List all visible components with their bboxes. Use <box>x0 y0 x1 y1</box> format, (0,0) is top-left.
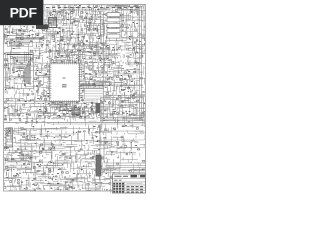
connector box 4 <box>107 29 120 33</box>
wire <box>4 103 34 105</box>
filter box <box>23 154 32 161</box>
PDF badge <box>0 0 43 25</box>
audio sub-circuit wires <box>104 141 144 154</box>
U1 pins <box>47 60 82 104</box>
title col <box>125 174 139 193</box>
CPU header <box>7 54 33 56</box>
wire <box>4 10 145 12</box>
wire <box>66 84 104 86</box>
IC U2 body <box>36 25 48 30</box>
title row2 text <box>114 179 122 181</box>
wire <box>100 119 144 121</box>
wire <box>105 84 143 86</box>
wire <box>14 133 76 135</box>
tuner box <box>122 7 145 38</box>
notes table box <box>8 41 33 47</box>
wire <box>99 124 101 188</box>
IC U6 body <box>72 108 80 115</box>
connector box 3 <box>107 23 120 27</box>
title checkerboard <box>113 183 124 193</box>
T1 hatch <box>101 22 104 35</box>
IC U3 <box>60 106 66 111</box>
transformer T1 <box>101 20 105 36</box>
title row3 right <box>127 183 143 185</box>
title rev dashes <box>127 187 144 192</box>
schematic filler text specks dark <box>4 4 148 190</box>
schematic filler components mid <box>3 4 147 193</box>
notes table text <box>9 43 30 46</box>
schematic filler wires light <box>0 1 160 196</box>
connector box 1 <box>107 13 120 17</box>
title header cell <box>140 175 145 178</box>
wire <box>100 130 144 132</box>
U6 pin rows <box>73 110 80 115</box>
title rows <box>113 178 146 190</box>
title header text <box>115 175 129 177</box>
voltage table rows <box>85 91 103 96</box>
Y1 leads <box>59 13 69 18</box>
IC U4 body <box>49 18 57 28</box>
vertical-output sub-circuit box <box>101 98 144 118</box>
wire <box>44 51 100 53</box>
wire <box>18 140 94 142</box>
border frame <box>4 5 146 192</box>
IC U5 box <box>8 106 15 114</box>
wire <box>66 87 104 88</box>
top label row <box>46 7 139 9</box>
crystal Y1 <box>60 10 66 16</box>
wire <box>10 145 62 147</box>
wire <box>50 123 144 125</box>
wire <box>8 177 94 179</box>
wire <box>4 167 64 169</box>
wire <box>106 166 146 173</box>
wire <box>4 38 44 40</box>
CPU pins <box>8 58 13 74</box>
wire <box>50 184 96 186</box>
main IC U1 body <box>50 63 80 102</box>
U1 label <box>62 78 67 87</box>
CN2 pins <box>97 156 101 174</box>
bus fanout stairs <box>12 57 30 85</box>
U4 pin rows <box>49 19 56 25</box>
bus <box>140 6 142 120</box>
wire <box>46 11 48 51</box>
connector CN <box>96 103 101 113</box>
sub-circuit bottom edge <box>104 140 146 163</box>
title header blob <box>131 175 138 178</box>
connector box 2 <box>107 18 120 22</box>
svg-text:PDF: PDF <box>10 5 38 21</box>
title block <box>113 174 146 193</box>
connector box 5 <box>107 34 120 38</box>
T2 hatch <box>7 130 13 145</box>
wire <box>14 128 96 130</box>
voltage table box <box>85 89 104 100</box>
tuner box columns <box>127 7 138 37</box>
wire vertical gap line <box>110 168 112 193</box>
wire <box>104 139 144 141</box>
wire <box>4 150 100 152</box>
connector CN2 <box>96 155 101 176</box>
bus <box>136 55 138 120</box>
wire <box>6 161 94 163</box>
wire <box>103 12 105 117</box>
wire <box>4 122 145 124</box>
power regulator box <box>8 153 21 162</box>
transformer T2 <box>6 128 13 147</box>
CPU box <box>6 53 34 89</box>
